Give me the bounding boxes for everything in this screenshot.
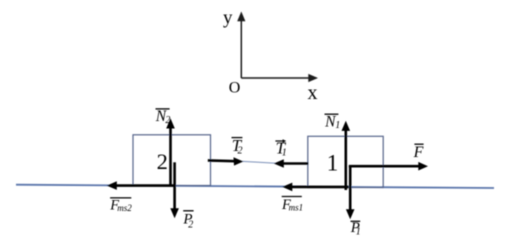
svg-text:y: y bbox=[223, 7, 233, 28]
force Fms1 (friction on block 1) bbox=[282, 183, 348, 192]
force T1 (tension on block 1) bbox=[274, 159, 308, 168]
string between blocks bbox=[240, 161, 276, 163]
label F bbox=[413, 144, 424, 161]
svg-text:2: 2 bbox=[157, 149, 168, 174]
label P1 bbox=[350, 220, 361, 237]
block 2 bbox=[133, 135, 211, 186]
axis y bbox=[223, 7, 245, 78]
svg-text:x: x bbox=[308, 82, 318, 104]
surface line bbox=[16, 185, 494, 188]
svg-text:ms1: ms1 bbox=[289, 203, 304, 213]
force F (applied force on block 1) bbox=[349, 162, 428, 171]
block 1 bbox=[308, 136, 383, 187]
svg-text:2: 2 bbox=[188, 219, 193, 230]
label N1 bbox=[324, 113, 340, 131]
svg-text:2: 2 bbox=[238, 145, 243, 156]
svg-text:1: 1 bbox=[327, 151, 339, 176]
svg-text:1: 1 bbox=[282, 148, 287, 159]
svg-text:1: 1 bbox=[356, 226, 361, 237]
force T2 (tension on block 2) bbox=[208, 157, 244, 165]
force N1 (normal on block 1) bbox=[342, 121, 351, 190]
label P2 bbox=[182, 211, 193, 231]
label T1 with vector arrow bbox=[275, 139, 286, 159]
force N2 (normal on block 2) bbox=[166, 118, 175, 186]
label Fms2 bbox=[109, 198, 132, 214]
force P2 (weight of block 2) bbox=[170, 162, 179, 218]
svg-text:1: 1 bbox=[335, 120, 340, 131]
label T2 bbox=[232, 136, 243, 157]
svg-text:2: 2 bbox=[165, 115, 170, 126]
svg-text:ms2: ms2 bbox=[117, 203, 132, 213]
force Fms2 (friction on block 2) bbox=[107, 181, 175, 190]
svg-text:O: O bbox=[229, 79, 241, 96]
axis x bbox=[241, 74, 318, 104]
label N2 bbox=[155, 108, 171, 126]
force P1 (weight of block 1) bbox=[346, 166, 355, 219]
svg-text:F: F bbox=[413, 144, 424, 161]
label Fms1 bbox=[281, 197, 303, 214]
